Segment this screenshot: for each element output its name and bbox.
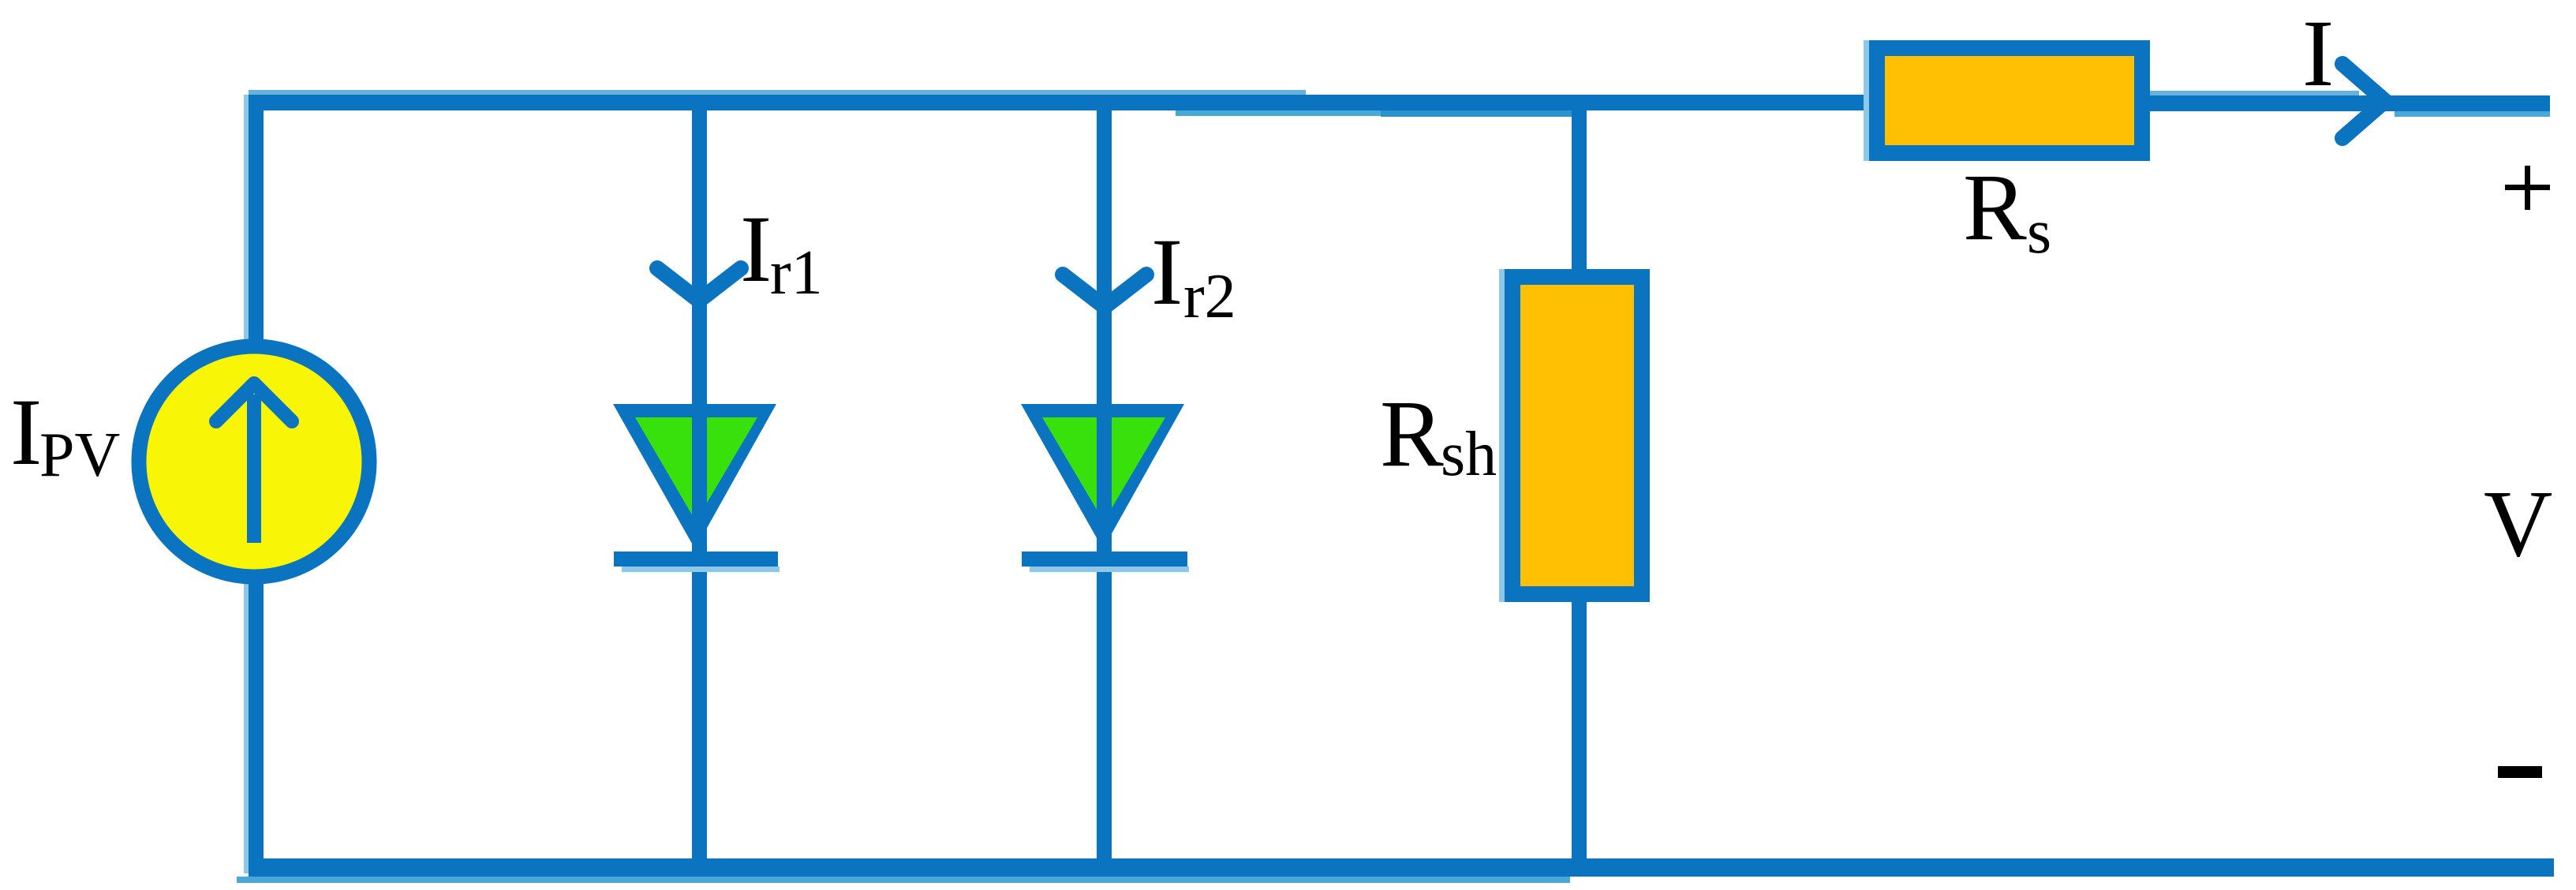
current arrow Ir1 (chevron on D1 branch) <box>657 268 741 301</box>
svg-text:r2: r2 <box>1183 262 1236 331</box>
label IPV <box>10 380 120 490</box>
minus terminal <box>2498 766 2542 778</box>
svg-text:I: I <box>1151 219 1183 325</box>
diode D1 cathode bar <box>614 552 780 572</box>
svg-text:I: I <box>10 380 42 485</box>
label Ir2 <box>1151 219 1236 331</box>
plus terminal <box>2505 166 2550 210</box>
diode D1 (triangle) <box>613 404 776 549</box>
label Ir1 <box>740 196 823 308</box>
wire: diode D2 branch vertical <box>1097 95 1112 877</box>
svg-text:I: I <box>2302 1 2334 107</box>
resistor Rsh (vertical box) <box>1499 269 1642 602</box>
resistor Rs (horizontal box) <box>1864 40 2142 161</box>
wire: top bus (node A) from top-left corner to Rs <box>249 90 1869 117</box>
current source IPV (circle with up arrow) <box>139 346 369 577</box>
svg-text:sh: sh <box>1441 420 1497 489</box>
svg-text:r1: r1 <box>770 238 823 308</box>
diode D2 (triangle) <box>1021 404 1184 549</box>
output current arrow I (chevron) <box>2342 64 2385 138</box>
svg-text:s: s <box>2027 197 2051 267</box>
wire: top bus from Rs to output terminal <box>2150 91 2550 117</box>
svg-text:R: R <box>1963 155 2027 260</box>
svg-text:V: V <box>2484 471 2552 577</box>
wire: diode D1 branch vertical <box>692 95 707 877</box>
current arrow Ir2 (chevron on D2 branch) <box>1063 275 1146 307</box>
wire: left branch vertical <box>244 95 264 873</box>
wire: Rsh branch vertical <box>1572 95 1587 877</box>
svg-text:PV: PV <box>39 421 120 490</box>
label Rsh <box>1380 381 1497 489</box>
svg-text:I: I <box>740 196 772 302</box>
label Rs <box>1963 155 2051 267</box>
diode D2 cathode bar <box>1022 552 1189 572</box>
wire: bottom bus (node B) <box>237 858 2554 883</box>
svg-text:R: R <box>1380 381 1444 487</box>
